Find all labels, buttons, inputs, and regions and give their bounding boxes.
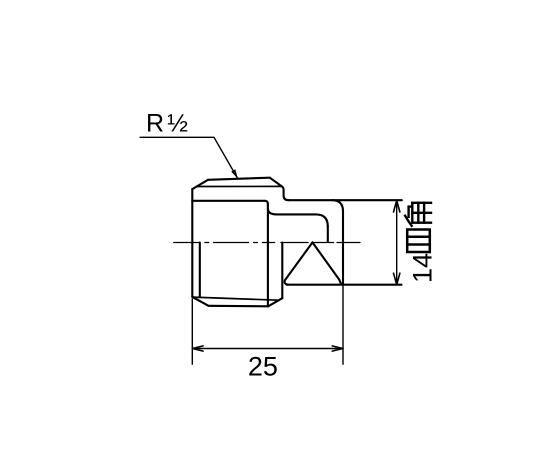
thread root line bottom [193,297,279,300]
inner fillet [316,214,328,226]
svg-text:R½: R½ [146,110,188,138]
arrowhead left 25 [192,346,203,351]
body left edge [191,189,193,297]
square top face and extension line [289,199,402,201]
top-left chamfer [192,180,208,189]
top-right chamfer [270,178,282,187]
right vertical below centerline [281,243,283,299]
square bottom face and extension line [287,284,402,286]
svg-text:14: 14 [408,253,438,283]
square top-right fillet [332,200,343,211]
cone left side [285,242,313,284]
svg-text:25: 25 [248,351,278,381]
inner vertical to centerline [327,226,329,242]
arrowhead bottom 14 [394,273,400,284]
extension line left for 25 [191,299,193,364]
shoulder horizontal top [192,200,265,202]
mid vertical line [267,204,269,306]
bottom-left chamfer [192,297,208,306]
leader line R1/2 [140,137,238,179]
cone right side [313,242,342,284]
kanji square (shi) [407,230,430,253]
chamfer border vertical [199,243,201,297]
kanji corner (kaku) [405,203,431,226]
arrowhead top 14 [394,201,400,213]
bottom-right chamfer [268,298,282,306]
transition curve top-right [282,187,289,201]
thread root line top [197,185,282,187]
top crest line [208,178,270,180]
dimension text 14-square (rotated, kanji drawn as paths) [405,203,437,283]
square right edge [342,211,344,284]
extension line right for 25 [342,285,344,365]
centerline [174,242,360,244]
arrowhead right 25 [332,346,343,351]
S-curve step [265,201,277,215]
leader arrowhead [231,169,238,178]
bottom crest line [209,305,269,308]
dimension line 25 [192,348,343,350]
inner horizontal face [277,213,316,215]
dimension line 14 [396,200,398,284]
